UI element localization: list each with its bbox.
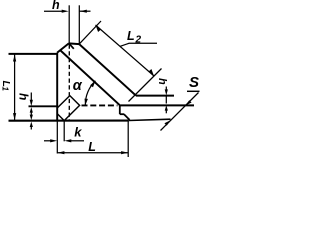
svg-text:1: 1 bbox=[1, 87, 10, 92]
svg-text:α: α bbox=[73, 78, 83, 94]
wire bend junction vertical bbox=[119, 105, 121, 114]
arrow h top left bbox=[62, 10, 69, 13]
arrow h top right bbox=[80, 10, 87, 13]
wire dashed horizontal bend axis bbox=[82, 104, 118, 106]
arrowheads bbox=[13, 10, 192, 155]
dimension L1 line bbox=[14, 54, 16, 121]
svg-text:L: L bbox=[88, 140, 96, 154]
dimension L line bbox=[57, 152, 128, 154]
wire bottom edge right thin bbox=[129, 119, 171, 120]
extension line bend bbox=[129, 69, 162, 102]
svg-text:h: h bbox=[52, 0, 60, 12]
arrow h right down bbox=[165, 89, 168, 95]
wire apex inner stub bbox=[69, 44, 74, 49]
dimension h left tails bbox=[30, 93, 32, 104]
dimension S shelf bbox=[187, 90, 200, 92]
arrow alpha lower bbox=[85, 99, 88, 106]
node bend diamond bbox=[57, 96, 79, 121]
arrow L2 upper bbox=[96, 25, 101, 32]
svg-text:h: h bbox=[156, 78, 168, 85]
arrow h left up2 bbox=[30, 122, 33, 127]
arrow S lower bbox=[164, 120, 170, 125]
dimension k lines bbox=[44, 140, 53, 142]
arrow h left down2 bbox=[30, 115, 33, 121]
wire top surface right bbox=[136, 95, 174, 97]
wire inner band edge bbox=[61, 51, 120, 106]
wire outer band edge bbox=[79, 44, 136, 96]
dimension h right tails bbox=[165, 87, 167, 92]
dimension h top lines bbox=[44, 10, 62, 12]
extension k right bbox=[63, 121, 65, 141]
svg-text:2: 2 bbox=[135, 35, 142, 46]
arrow L1 bottom bbox=[13, 113, 16, 120]
svg-text:S: S bbox=[189, 74, 199, 91]
wire bottom surface right bbox=[120, 104, 194, 106]
wire apex chamfer bbox=[57, 43, 69, 52]
dimension alpha arc bbox=[85, 81, 95, 105]
extension k left bbox=[56, 121, 58, 154]
arrow h right up bbox=[165, 105, 168, 110]
arrow L2 lower bbox=[149, 69, 154, 76]
arrow h left up1 bbox=[30, 107, 33, 113]
extension L right bbox=[127, 121, 129, 157]
wire apex end edge bbox=[69, 42, 79, 45]
extension line apex bbox=[79, 21, 101, 44]
wire h ext upper left bbox=[29, 105, 58, 107]
wire top edge left leg bbox=[9, 53, 58, 55]
arrow h left down1 bbox=[30, 100, 33, 106]
wire chamfer bottom right bbox=[124, 114, 130, 120]
arrow alpha upper bbox=[90, 81, 95, 87]
wire left end vertical bbox=[56, 53, 58, 121]
dimension L2 line bbox=[96, 25, 155, 76]
arrow L1 top bbox=[13, 55, 16, 62]
dimension S leader bbox=[161, 93, 199, 131]
arrow k left bbox=[50, 139, 57, 142]
arrow S upper bbox=[186, 100, 192, 105]
dimension L2 shoulder bbox=[120, 43, 157, 46]
arrow L right bbox=[121, 151, 128, 154]
svg-text:k: k bbox=[74, 124, 82, 139]
arrow k right bbox=[64, 139, 71, 142]
wire dashed vertical bend axis bbox=[68, 45, 70, 121]
svg-text:L: L bbox=[127, 29, 135, 43]
wire bottom edge long bbox=[9, 120, 129, 122]
svg-text:h: h bbox=[17, 93, 31, 100]
arrow L left bbox=[57, 151, 64, 154]
wire stub line right bbox=[120, 113, 124, 115]
